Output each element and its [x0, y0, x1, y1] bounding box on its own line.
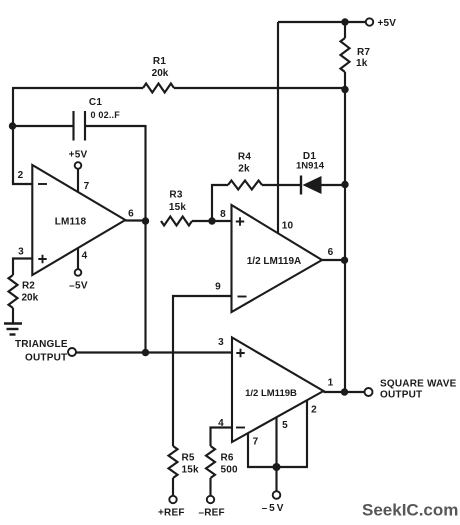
wire R1 right to +5V rail [174, 87, 345, 89]
svg-text:C1: C1 [89, 97, 102, 108]
svg-text:6: 6 [128, 209, 134, 220]
svg-text:5: 5 [282, 420, 288, 431]
svg-text:–REF: –REF [199, 508, 225, 519]
svg-text:R7: R7 [357, 47, 370, 58]
wire +5V rail top [278, 21, 366, 23]
wire U1 pin3 input [13, 259, 32, 276]
terminal +REF [169, 496, 176, 503]
wire node to U2 pin8 [212, 220, 231, 222]
wire R4 left lead [211, 184, 228, 186]
wire U3 supply bus [247, 466, 308, 468]
svg-text:7: 7 [84, 181, 90, 192]
ground [4, 324, 22, 335]
U1 non-inverting input plus sign [38, 255, 46, 263]
svg-text:+5V: +5V [69, 150, 88, 161]
svg-text:1N914: 1N914 [296, 161, 325, 172]
U1 inverting input minus sign [38, 183, 47, 185]
svg-text:9: 9 [215, 282, 221, 293]
svg-text:20k: 20k [22, 293, 39, 304]
svg-text:3: 3 [218, 337, 224, 348]
wire U1 pin7 supply [77, 169, 79, 193]
U2 minus sign pin9 [238, 296, 247, 298]
svg-text:R5: R5 [182, 453, 195, 464]
wire R5 bottom lead [172, 478, 174, 496]
svg-text:–5V: –5V [262, 503, 286, 514]
wire R7 bottom lead [344, 72, 346, 90]
wire C1 to U1 output node [144, 125, 146, 221]
wire R5 top lead [172, 352, 174, 446]
U3 plus sign pin3 [236, 349, 244, 357]
svg-text:TRIANGLE: TRIANGLE [15, 339, 68, 350]
resistor R1 [143, 84, 174, 93]
wire +5V rail vertical [344, 89, 346, 392]
junction U1 output node [142, 217, 149, 224]
svg-text:+5V: +5V [378, 18, 397, 29]
wire triangle output [76, 351, 232, 353]
svg-text:2: 2 [311, 405, 317, 416]
wire U3 output [324, 391, 366, 393]
wire pin8 node up [211, 184, 213, 221]
svg-text:3: 3 [18, 247, 24, 258]
resistor R3 [161, 217, 192, 226]
svg-text:20k: 20k [152, 68, 169, 79]
svg-text:4: 4 [82, 251, 88, 262]
svg-text:1k: 1k [356, 58, 368, 69]
wire C1 left lead [12, 125, 73, 127]
diode D1 [301, 176, 322, 195]
terminal TRIANGLE OUTPUT [68, 348, 76, 356]
svg-text:2k: 2k [238, 164, 250, 175]
wire U1 output node down to triangle output [144, 221, 146, 353]
capacitor C1 [74, 111, 86, 141]
resistor R5 [169, 446, 178, 478]
svg-text:R6: R6 [221, 453, 234, 464]
resistor R7 [341, 38, 350, 72]
wire R4 to D1 [262, 184, 301, 186]
svg-text:15k: 15k [169, 202, 187, 213]
svg-text:1/2 LM119B: 1/2 LM119B [245, 388, 297, 399]
svg-text:R4: R4 [238, 152, 251, 163]
wire R7 top lead [344, 21, 346, 38]
resistor R4 [228, 181, 262, 190]
svg-text:R3: R3 [169, 190, 182, 201]
wire D1 to +5V rail [321, 184, 345, 186]
wire to -5V terminal [275, 467, 277, 492]
comparator U2 1/2 LM119A body [232, 205, 323, 312]
wire U3 pin2 [306, 400, 308, 467]
svg-text:OUTPUT: OUTPUT [380, 390, 422, 401]
wire U1 pin4 supply [77, 248, 79, 269]
svg-text:R1: R1 [153, 56, 166, 67]
junction D1/rail [341, 181, 348, 188]
terminal +5V top [366, 18, 373, 25]
comparator U3 1/2 LM119B body [232, 338, 324, 443]
U3 minus sign pin4 [236, 427, 245, 429]
svg-text:0 02..F: 0 02..F [91, 110, 121, 120]
svg-text:6: 6 [328, 247, 334, 258]
terminal SQUARE WAVE OUTPUT [365, 388, 373, 396]
op-amp U1 LM118 body [32, 165, 125, 275]
svg-text:1/2 LM119A: 1/2 LM119A [247, 256, 301, 267]
svg-text:10: 10 [282, 221, 294, 232]
terminal U1 V+ supply [75, 162, 82, 169]
svg-text:8: 8 [220, 209, 226, 220]
junction supply bus [273, 463, 281, 471]
junction triangle output [142, 349, 149, 356]
resistor R6 [206, 446, 215, 478]
wire left feedback vertical [12, 87, 14, 184]
svg-text:+REF: +REF [158, 508, 185, 519]
wire U2 output to rail [322, 259, 346, 261]
wire U3 pin7 [247, 433, 249, 467]
junction +5V/R7 [341, 18, 348, 25]
svg-text:OUTPUT: OUTPUT [25, 353, 67, 364]
wire U1 output [125, 219, 146, 221]
wire R3 right [192, 220, 212, 222]
junction R1/R7 [341, 86, 348, 93]
terminal -5V [273, 491, 281, 499]
svg-text:7: 7 [253, 437, 259, 448]
wire top feedback (R1 leads) [13, 87, 143, 89]
wire pin10 supply drop [277, 22, 279, 233]
wire C1 right lead [85, 125, 146, 127]
svg-text:500: 500 [221, 465, 239, 476]
resistor R2 [9, 275, 18, 308]
wire U2 pin9 input [173, 296, 231, 352]
junction U2 output/rail [341, 257, 348, 264]
svg-text:–5V: –5V [69, 281, 88, 292]
terminal U1 V- supply [75, 269, 82, 276]
svg-text:LM118: LM118 [55, 217, 87, 228]
svg-text:1: 1 [328, 378, 334, 389]
terminal -REF [207, 496, 214, 503]
svg-text:SQUARE WAVE: SQUARE WAVE [380, 379, 457, 390]
junction R3/R4 node [208, 217, 215, 224]
svg-text:15k: 15k [182, 465, 200, 476]
wire U3 pin4 input [211, 428, 233, 447]
svg-text:2: 2 [18, 170, 24, 181]
svg-text:R2: R2 [22, 281, 35, 292]
wire R6 bottom lead [209, 478, 211, 496]
wire R2 to ground [12, 308, 14, 323]
U2 plus sign pin8 [236, 217, 244, 225]
wire U3 pin5 [275, 417, 277, 467]
svg-text:SeekIC.com: SeekIC.com [362, 501, 458, 520]
junction U3 output/rail [341, 388, 348, 395]
junction node C1-left [9, 122, 16, 129]
wire U1 pin2 input [13, 180, 32, 184]
